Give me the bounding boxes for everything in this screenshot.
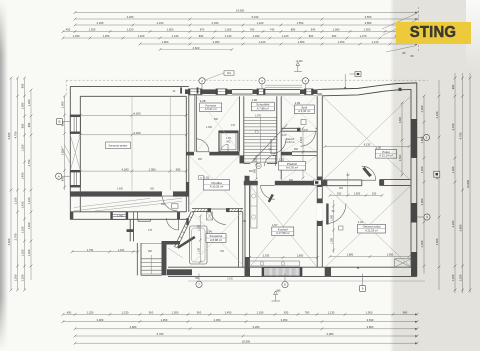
- svg-text:900: 900: [254, 168, 257, 173]
- svg-text:1,000: 1,000: [331, 237, 334, 244]
- svg-text:1,100: 1,100: [21, 226, 25, 233]
- svg-text:1,250: 1,250: [21, 249, 25, 256]
- svg-text:1,000: 1,000: [225, 28, 232, 32]
- svg-text:80: 80: [347, 174, 350, 177]
- svg-text:1.06: 1.06: [252, 98, 258, 102]
- svg-text:3,680: 3,680: [365, 21, 372, 25]
- svg-text:820: 820: [309, 34, 314, 38]
- svg-text:1,750: 1,750: [87, 248, 94, 252]
- svg-text:5,280: 5,280: [253, 325, 260, 329]
- svg-text:1,500: 1,500: [167, 28, 174, 32]
- svg-text:1,420: 1,420: [257, 21, 264, 25]
- svg-text:1,140: 1,140: [372, 40, 379, 44]
- svg-text:1,450: 1,450: [21, 201, 25, 208]
- svg-text:A 6,34 m²: A 6,34 m²: [298, 109, 310, 113]
- svg-text:1,950: 1,950: [366, 311, 373, 315]
- svg-text:A 10,26 m²: A 10,26 m²: [210, 185, 224, 189]
- svg-text:1.02: 1.02: [279, 157, 285, 161]
- svg-text:1,440: 1,440: [259, 40, 266, 44]
- svg-text:700: 700: [220, 250, 225, 253]
- svg-text:1,400: 1,400: [117, 187, 124, 190]
- svg-text:6,780: 6,780: [157, 332, 164, 336]
- svg-text:760: 760: [250, 28, 255, 32]
- svg-text:1,100: 1,100: [118, 248, 125, 252]
- svg-text:175: 175: [148, 229, 153, 232]
- svg-text:1,750: 1,750: [117, 215, 124, 218]
- svg-text:A 5,31 m²: A 5,31 m²: [205, 107, 217, 111]
- svg-text:1,250: 1,250: [27, 249, 31, 256]
- svg-text:A 7,88 m²: A 7,88 m²: [257, 106, 269, 110]
- svg-text:1,100: 1,100: [27, 197, 31, 204]
- svg-text:780: 780: [305, 311, 310, 315]
- svg-text:1,100: 1,100: [198, 247, 201, 254]
- svg-text:450: 450: [66, 28, 71, 32]
- svg-text:2,250: 2,250: [97, 21, 104, 25]
- svg-text:1,060: 1,060: [333, 28, 340, 32]
- svg-text:150: 150: [337, 192, 342, 196]
- svg-text:1,970: 1,970: [255, 115, 262, 118]
- svg-text:1,350: 1,350: [21, 144, 25, 151]
- svg-text:1,850: 1,850: [297, 254, 304, 258]
- svg-text:2,350: 2,350: [227, 279, 233, 281]
- svg-text:3,050: 3,050: [281, 318, 288, 322]
- svg-text:450: 450: [67, 311, 72, 315]
- svg-text:1,420: 1,420: [138, 34, 145, 38]
- svg-text:300: 300: [150, 187, 155, 190]
- svg-text:18,300: 18,300: [242, 339, 251, 343]
- svg-text:1,470: 1,470: [302, 129, 309, 132]
- svg-text:950: 950: [27, 122, 31, 127]
- svg-text:1,400: 1,400: [21, 172, 25, 179]
- svg-text:1,030: 1,030: [253, 34, 260, 38]
- svg-text:1,050: 1,050: [172, 311, 179, 315]
- svg-text:1,270: 1,270: [360, 34, 367, 38]
- svg-text:1,500: 1,500: [354, 192, 361, 196]
- svg-text:900: 900: [197, 311, 202, 315]
- svg-text:1,030: 1,030: [73, 34, 80, 38]
- svg-text:1,000: 1,000: [21, 102, 25, 109]
- svg-text:1,450: 1,450: [225, 311, 232, 315]
- svg-text:4,820: 4,820: [7, 238, 11, 245]
- svg-text:Zádveří: Zádveří: [286, 138, 295, 141]
- svg-text:1.09: 1.09: [226, 137, 231, 140]
- svg-text:1,200: 1,200: [198, 224, 201, 231]
- svg-text:4,180: 4,180: [134, 131, 141, 135]
- svg-text:880: 880: [291, 28, 296, 32]
- svg-text:1.05: 1.05: [376, 145, 382, 149]
- svg-text:800: 800: [289, 179, 294, 182]
- svg-text:900: 900: [21, 83, 25, 88]
- svg-text:2,620: 2,620: [193, 46, 200, 50]
- svg-text:800: 800: [249, 170, 254, 173]
- svg-text:A 6,76 m²: A 6,76 m²: [286, 166, 298, 170]
- svg-text:150: 150: [372, 192, 377, 196]
- svg-text:1,950: 1,950: [161, 318, 168, 322]
- svg-text:3,550: 3,550: [365, 15, 372, 19]
- svg-text:1,000: 1,000: [61, 101, 65, 108]
- svg-text:1,230: 1,230: [122, 311, 129, 315]
- svg-text:A 21,53 m²: A 21,53 m²: [365, 229, 378, 233]
- svg-text:4,680: 4,680: [130, 325, 137, 329]
- svg-text:5,230: 5,230: [252, 15, 259, 19]
- svg-text:2,050: 2,050: [213, 40, 220, 44]
- svg-text:1,250: 1,250: [87, 311, 94, 315]
- svg-text:1.07: 1.07: [272, 223, 278, 227]
- svg-text:800: 800: [294, 148, 299, 151]
- svg-text:A 8,98 m²: A 8,98 m²: [210, 238, 222, 242]
- svg-text:1,550: 1,550: [297, 21, 304, 25]
- svg-text:1,100: 1,100: [300, 136, 303, 143]
- svg-text:1.03: 1.03: [282, 135, 287, 137]
- svg-text:970: 970: [200, 28, 205, 32]
- svg-text:B: B: [59, 120, 61, 124]
- svg-text:1,130: 1,130: [172, 34, 179, 38]
- svg-text:1,200: 1,200: [21, 274, 25, 281]
- svg-text:A: A: [58, 174, 60, 178]
- svg-text:1.09: 1.09: [295, 101, 301, 105]
- svg-text:2,750: 2,750: [27, 159, 31, 166]
- svg-text:4,180: 4,180: [134, 112, 141, 116]
- svg-text:3,800: 3,800: [367, 325, 374, 329]
- svg-text:1,500: 1,500: [331, 214, 334, 221]
- svg-text:1,97: 1,97: [231, 124, 236, 127]
- svg-text:Komorový prostor: Komorový prostor: [109, 145, 128, 148]
- svg-text:1,880: 1,880: [347, 253, 354, 257]
- svg-text:1,300: 1,300: [206, 126, 213, 129]
- svg-text:2,700: 2,700: [14, 233, 18, 240]
- svg-text:14,300: 14,300: [236, 9, 245, 13]
- svg-text:+2,620: +2,620: [295, 61, 303, 63]
- svg-text:1,200: 1,200: [14, 274, 18, 281]
- svg-text:WC: WC: [227, 141, 231, 144]
- svg-text:740: 740: [270, 28, 275, 32]
- svg-text:6,980: 6,980: [327, 332, 334, 336]
- svg-text:2,350: 2,350: [214, 318, 221, 322]
- svg-text:2,330: 2,330: [263, 254, 270, 258]
- svg-text:1.10: 1.10: [358, 220, 364, 224]
- svg-text:830: 830: [199, 34, 204, 38]
- svg-text:Obývací pokoj: Obývací pokoj: [363, 225, 381, 229]
- svg-text:1.01: 1.01: [204, 175, 210, 179]
- svg-text:4,180: 4,180: [122, 167, 129, 171]
- svg-text:950: 950: [21, 123, 25, 128]
- svg-text:1,130: 1,130: [328, 311, 335, 315]
- svg-text:900: 900: [161, 203, 166, 206]
- svg-text:1,250: 1,250: [103, 34, 110, 38]
- svg-text:1,300: 1,300: [364, 28, 371, 32]
- svg-text:90: 90: [173, 91, 176, 93]
- svg-text:A 4,53 m²: A 4,53 m²: [285, 141, 295, 144]
- svg-text:1,520: 1,520: [127, 28, 134, 32]
- svg-text:K01: K01: [227, 73, 232, 75]
- svg-text:1,560: 1,560: [298, 40, 305, 44]
- svg-text:2,100: 2,100: [157, 21, 164, 25]
- svg-text:900: 900: [149, 311, 154, 315]
- svg-text:5,480: 5,480: [7, 132, 11, 139]
- svg-text:380: 380: [176, 167, 181, 171]
- svg-text:80: 80: [332, 210, 335, 213]
- svg-text:1.08: 1.08: [200, 99, 206, 103]
- svg-text:640: 640: [311, 28, 316, 32]
- svg-text:3,830: 3,830: [367, 318, 374, 322]
- svg-text:550: 550: [254, 157, 257, 162]
- svg-text:A 17,58 m²: A 17,58 m²: [276, 231, 290, 235]
- svg-text:1,140: 1,140: [225, 34, 232, 38]
- svg-text:900: 900: [339, 187, 344, 190]
- svg-text:1,180: 1,180: [257, 311, 264, 315]
- svg-text:160: 160: [242, 220, 247, 223]
- svg-text:4,700: 4,700: [14, 131, 18, 138]
- svg-text:4,180: 4,180: [127, 15, 134, 19]
- svg-text:197: 197: [368, 174, 373, 177]
- svg-text:1,450: 1,450: [27, 222, 31, 229]
- svg-text:2,030: 2,030: [212, 21, 219, 25]
- svg-text:900: 900: [332, 34, 337, 38]
- svg-text:900: 900: [198, 158, 203, 161]
- svg-text:1,120: 1,120: [282, 34, 289, 38]
- svg-text:930: 930: [284, 311, 289, 315]
- svg-text:6,130: 6,130: [364, 143, 371, 147]
- svg-text:1,300: 1,300: [27, 99, 31, 106]
- svg-text:800: 800: [214, 118, 219, 121]
- svg-text:1,900: 1,900: [162, 40, 169, 44]
- svg-text:1,100: 1,100: [14, 197, 18, 204]
- svg-text:1,350: 1,350: [89, 28, 96, 32]
- svg-text:900: 900: [148, 250, 153, 253]
- svg-text:1,380: 1,380: [149, 167, 156, 171]
- svg-text:1,450: 1,450: [338, 40, 345, 44]
- svg-text:3,080: 3,080: [97, 318, 104, 322]
- svg-text:1.04: 1.04: [206, 230, 212, 234]
